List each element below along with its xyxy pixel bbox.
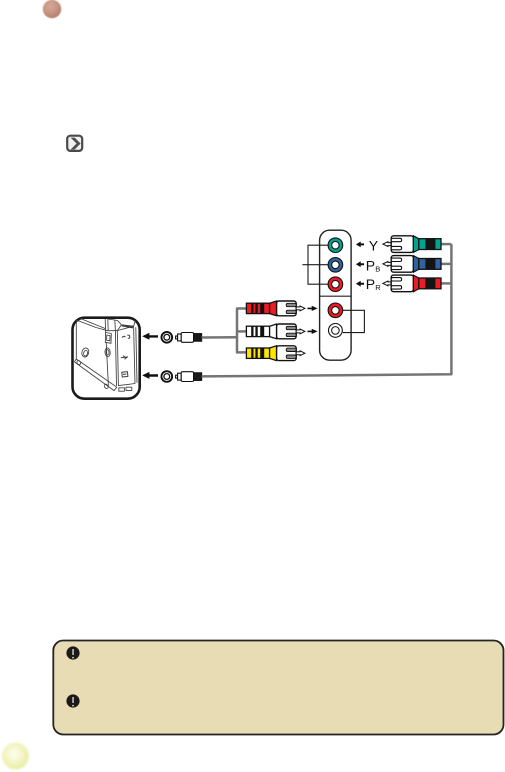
camcorder device frame: [73, 318, 140, 399]
bracket video audio out: [343, 310, 365, 332]
label Y: [369, 237, 379, 253]
RCA plug red (video): [246, 301, 305, 316]
component plug PR red: [383, 275, 441, 292]
label PR: [366, 276, 381, 292]
note box: [53, 641, 503, 735]
section chevron icon: [67, 136, 82, 151]
svg-text:Y: Y: [369, 237, 379, 253]
bullet ornament top: [43, 0, 61, 18]
DC to component adapter wire: [202, 244, 452, 376]
label PB: [366, 258, 380, 274]
usb port square on edge: [105, 333, 111, 344]
component plug PB blue: [383, 256, 441, 273]
RCA plug white (audio): [246, 324, 305, 339]
bracket component video in: [302, 245, 328, 284]
jack video red: [328, 303, 343, 318]
arrow label PR: [356, 281, 364, 287]
bullet ornament bottom: [2, 743, 29, 770]
DC mini plug: [176, 372, 202, 382]
jack audio white: [329, 324, 343, 338]
arrow white to jack: [308, 329, 318, 334]
note icon 2: [66, 694, 79, 707]
jack PB blue: [328, 258, 343, 273]
svg-text:P: P: [366, 258, 375, 274]
screw oval bottom: [103, 383, 108, 389]
component plug Y green: [383, 236, 441, 253]
svg-text:R: R: [375, 283, 381, 292]
AV cable wire: [202, 336, 237, 339]
door icons: [122, 335, 130, 338]
arrow label Y: [356, 242, 364, 248]
AV mini plug: [176, 333, 202, 343]
note icon 1: [66, 646, 79, 659]
DC jack ring: [161, 371, 172, 382]
TV jack panel: [320, 230, 352, 360]
arrow red to jack: [308, 306, 318, 311]
arrow to AV jack on device: [142, 333, 158, 340]
jack Y green: [328, 238, 343, 253]
screw oval lower-left: [76, 360, 81, 366]
port door panel: [117, 326, 135, 385]
svg-text:P: P: [366, 276, 375, 292]
AV cable splitter trunk: [237, 309, 246, 353]
panel divider: [320, 295, 352, 297]
speaker circle on back face: [81, 347, 90, 358]
bottom feet tabs: [119, 388, 125, 391]
arrow to DC jack on device: [142, 372, 158, 379]
AV jack ring: [161, 332, 172, 343]
arrow label PB: [356, 261, 364, 267]
round port on edge: [105, 348, 111, 357]
jack PR red: [328, 277, 343, 292]
RCA plug yellow: [246, 346, 305, 361]
svg-text:B: B: [375, 265, 380, 274]
camcorder body line drawing: [74, 319, 137, 392]
